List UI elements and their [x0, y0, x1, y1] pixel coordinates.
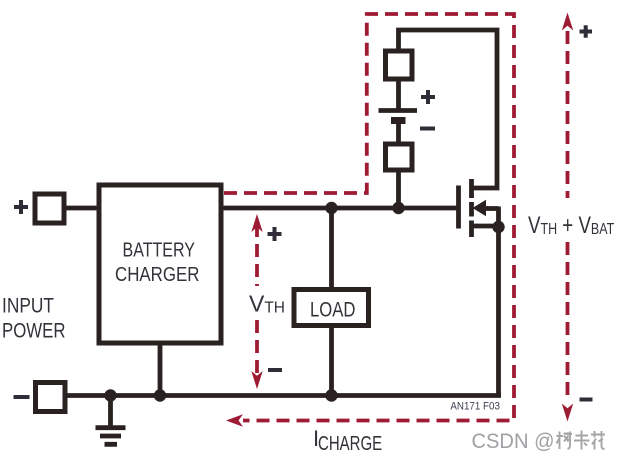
minus sign battery [420, 127, 435, 131]
junction dot battery branch [392, 202, 404, 214]
junction dot load bottom [325, 389, 337, 401]
wire battery top loop [399, 30, 498, 188]
main output wire [221, 206, 457, 211]
junction dot ground [104, 389, 116, 401]
mosfet Q1 body wire [484, 206, 499, 211]
ground [96, 396, 126, 445]
battery charger U1 box [99, 185, 221, 343]
wire battery branch lower [396, 170, 401, 208]
svg-text:BATTERY: BATTERY [123, 239, 196, 262]
minus sign input [14, 395, 30, 399]
input terminal - (square) [36, 383, 66, 412]
bottom rail wire [66, 393, 501, 398]
svg-text:LOAD: LOAD [310, 299, 356, 322]
wire source down to rail [496, 207, 501, 398]
svg-text:CHARGER: CHARGER [115, 263, 200, 286]
plus sign vth [268, 227, 282, 241]
wire battery to upper box [396, 80, 401, 112]
svg-text:CHARGE: CHARGE [318, 432, 382, 455]
load box [294, 290, 369, 326]
mosfet Q1 body arrow [473, 200, 487, 216]
vbat arrowhead down [562, 404, 573, 422]
watermark glyph ka [574, 431, 590, 450]
plus sign battery [421, 90, 435, 104]
minus sign vth [268, 368, 282, 372]
wire charger bottom [158, 345, 163, 396]
svg-text:INPUT: INPUT [2, 295, 54, 318]
vth measure dashed line lower [255, 320, 259, 378]
wire lower box to battery [396, 122, 401, 143]
battery BT1 negative plate [391, 117, 406, 124]
minus sign vbat [580, 398, 593, 402]
wire load bottom [329, 325, 334, 396]
feedback loop arrowhead left [226, 414, 243, 426]
svg-text:VTH: VTH [249, 291, 285, 317]
vbat measure dashed line lower [566, 242, 570, 400]
junction dot source [492, 221, 504, 233]
watermark glyph shu [557, 432, 573, 450]
vth arrowhead up [251, 214, 262, 232]
battery BT1 positive plate [379, 108, 418, 113]
vbat measure dashed line upper [566, 31, 570, 198]
battery lower contact box [386, 144, 413, 170]
mosfet Q1 gate bar [456, 186, 461, 229]
svg-text:POWER: POWER [2, 320, 66, 343]
svg-text:VTH + VBAT: VTH + VBAT [528, 212, 614, 239]
mosfet Q1 channel segments [469, 179, 474, 237]
input terminal + (square) [35, 194, 64, 223]
vth arrowhead down [251, 371, 262, 389]
wire input+ to charger [64, 206, 99, 211]
svg-text:AN171 F03: AN171 F03 [450, 401, 500, 413]
junction dot load top [325, 202, 337, 214]
mosfet Q1 source wire [472, 224, 499, 229]
watermark glyph hua [591, 431, 605, 450]
junction dot charger bottom [154, 389, 166, 401]
svg-text:CSDN @: CSDN @ [472, 429, 555, 453]
feedback loop dashed path [224, 14, 514, 421]
plus sign vbat [580, 25, 593, 38]
vbat arrowhead up [562, 13, 573, 31]
plus sign input [14, 200, 28, 214]
vth measure dashed line upper [255, 224, 259, 286]
wire load top [329, 208, 334, 290]
battery upper contact box [386, 51, 413, 79]
